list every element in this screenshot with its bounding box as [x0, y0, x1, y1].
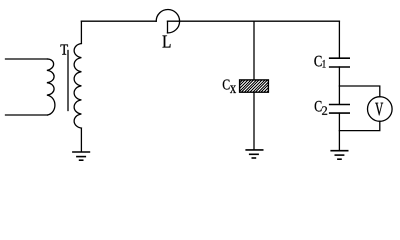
- inductor L stub: [167, 21, 169, 33]
- transformer T primary top lead: [6, 58, 48, 60]
- transformer T primary bottom lead: [6, 114, 48, 116]
- label C1: [314, 56, 321, 67]
- wire top bus right segment: [168, 20, 340, 22]
- voltmeter V circle: [368, 97, 393, 122]
- wire secondary top to bus: [80, 21, 82, 43]
- wire voltmeter stub bottom: [339, 121, 379, 130]
- wire right branch vertical top: [338, 21, 340, 58]
- ground below Cx: [246, 150, 263, 158]
- wire C1 to C2: [338, 67, 340, 104]
- ground below transformer secondary: [73, 152, 90, 160]
- label C2: [315, 101, 322, 112]
- capacitor C1: [330, 58, 350, 67]
- ground below C2: [331, 151, 348, 160]
- transformer T secondary winding: [74, 44, 81, 129]
- wire C2 to ground: [338, 113, 340, 150]
- wire voltmeter stub top: [339, 86, 379, 97]
- capacitor Cx hatched body: [226, 78, 284, 94]
- inductor L loop: [156, 10, 179, 33]
- label Cx: [223, 80, 230, 90]
- label T: [61, 45, 68, 55]
- wire top bus left segment: [81, 20, 156, 22]
- capacitor C2: [330, 105, 350, 114]
- wire Cx branch bottom: [253, 92, 255, 150]
- label L: [163, 36, 171, 48]
- transformer T primary winding: [47, 59, 55, 115]
- transformer T core: [67, 51, 69, 111]
- label V: [375, 103, 383, 116]
- wire secondary bottom to ground: [80, 128, 82, 152]
- wire Cx branch top: [253, 21, 255, 80]
